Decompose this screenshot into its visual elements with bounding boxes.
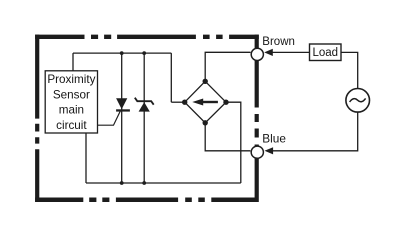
node: bridge bottom vertex — [203, 120, 208, 125]
svg-text:Blue: Blue — [262, 132, 286, 146]
wire: Load to AC source — [341, 52, 358, 88]
arrow into Blue terminal — [265, 147, 274, 154]
wire: to bridge left vertex — [171, 101, 184, 103]
zener diode D1 triangle — [139, 102, 150, 112]
node: bottom rail junction at zener branch — [142, 181, 146, 185]
node: bottom rail junction at SCR branch — [120, 181, 124, 185]
wire: bridge right vertex riser — [226, 102, 241, 183]
wire: bridge bottom to Blue terminal — [205, 123, 250, 151]
arrow into Brown terminal — [264, 49, 273, 56]
wire: Brown terminal to Load — [271, 51, 310, 53]
wire: AC source to Blue terminal — [271, 112, 358, 151]
sensor enclosure dashed border left — [35, 35, 39, 202]
wire: top rail — [73, 52, 171, 54]
wire: box bottom drop — [85, 133, 87, 183]
sensor enclosure dashed border bottom — [35, 198, 259, 203]
thyristor Q1 cathode bar — [116, 109, 130, 111]
thyristor Q1 triangle — [116, 98, 127, 109]
svg-text:Sensor: Sensor — [53, 88, 90, 101]
terminal: Brown — [251, 48, 263, 60]
wire: zener branch — [143, 53, 145, 183]
wire: bottom rail — [86, 182, 241, 184]
svg-text:circuit: circuit — [56, 119, 87, 132]
terminal: Blue — [251, 146, 263, 158]
node: top rail junction at SCR branch — [120, 51, 124, 55]
svg-text:Proximity: Proximity — [47, 73, 95, 86]
AC source — [346, 89, 370, 113]
wire: bridge top to Brown terminal — [205, 52, 250, 81]
thyristor Q1 gate — [98, 111, 121, 125]
node: bridge right vertex — [223, 100, 228, 105]
node: bridge top vertex — [203, 79, 208, 84]
svg-text:Brown: Brown — [262, 36, 295, 48]
bridge arrow — [202, 101, 218, 103]
svg-text:Load: Load — [313, 47, 339, 59]
node: bridge left vertex — [182, 100, 187, 105]
wire: box top drop — [72, 53, 74, 71]
svg-text:main: main — [59, 104, 84, 117]
node: top rail junction at zener branch — [142, 51, 146, 55]
sensor enclosure dashed border right — [255, 35, 259, 202]
wire: SCR branch — [121, 53, 123, 183]
bridge rectifier diamond — [185, 81, 226, 123]
zener diode D1 cathode bar with hooks — [135, 98, 154, 105]
sensor enclosure dashed border top — [35, 35, 259, 39]
proximity sensor main circuit box — [45, 71, 97, 133]
wire: rail right drop — [170, 53, 172, 102]
load box — [310, 44, 342, 61]
